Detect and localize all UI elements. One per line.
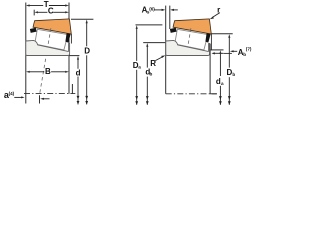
extension line stub: cup back face: [71, 84, 73, 94]
dimension T left arrow: [26, 4, 30, 6]
dimension C line: [37, 11, 47, 13]
svg-text:D: D: [84, 47, 90, 56]
d line stacked arrows: [77, 96, 80, 100]
cup back face OD extension line (Db): [212, 33, 233, 35]
dimension a right arrow (to load center): [40, 98, 44, 100]
svg-text:b: b: [150, 71, 153, 76]
svg-text:b: b: [243, 52, 246, 57]
dimension T line: [29, 5, 43, 7]
roller axis dashed line: [40, 28, 51, 93]
svg-text:(4): (4): [9, 91, 15, 96]
housing shoulder extension line (Da): [136, 24, 163, 26]
cage wedge (roller small end, right figure): [205, 33, 210, 43]
svg-text:d: d: [76, 68, 81, 77]
extension line: cone front face (left): [25, 3, 27, 104]
dimension B line: [29, 71, 44, 73]
svg-text:C: C: [48, 6, 54, 15]
cone backing shoulder extension line (db): [143, 42, 165, 44]
db line stacked arrows: [146, 96, 149, 100]
cup OD extension line: [71, 18, 93, 20]
dimension db line: [146, 43, 148, 47]
Ab back-standout arrow (points at cage back): [212, 52, 215, 54]
cage wedge (roller small end, right): [65, 33, 70, 43]
dimension C extension bar: [33, 10, 35, 16]
dimension As right arrow: [170, 9, 174, 11]
svg-text:a: a: [221, 81, 224, 86]
centerline (left figure): [24, 93, 75, 95]
roller (left figure): [35, 29, 68, 50]
extension line: bearing back face (right): [68, 3, 70, 94]
dimension T right arrow: [65, 4, 69, 6]
dimension D line (cup OD): [86, 20, 88, 24]
cup (outer ring, left figure): [33, 19, 71, 34]
cup (outer ring, right figure): [173, 19, 211, 34]
D line stacked arrows: [85, 96, 88, 100]
roller (right figure): [175, 29, 208, 50]
svg-text:b: b: [232, 72, 235, 77]
dimension B left arrow: [26, 71, 30, 73]
roller axis dashed line (right figure): [186, 28, 191, 56]
dimension da line: [219, 50, 221, 54]
cone bore extension line: [69, 55, 79, 57]
As line 2: cage front standout extension: [169, 6, 171, 29]
svg-text:B: B: [45, 67, 51, 76]
da line stacked arrows: [219, 96, 222, 100]
cone back rib extension line (da): [211, 49, 224, 51]
cone back face extension line with centerline stub: [209, 44, 211, 94]
dimension As left arrow: [154, 9, 162, 11]
centerline (right figure): [166, 93, 217, 95]
effective load center line: [39, 95, 41, 103]
cup back face extension down to housing shoulder: [210, 34, 212, 50]
shoulder line segment: [224, 52, 232, 54]
svg-text:(6): (6): [149, 7, 155, 12]
dimension C left arrow: [34, 11, 38, 13]
dimension C right arrow: [65, 11, 69, 13]
Da line stacked arrows: [135, 96, 138, 100]
cage wedge (roller large end, left): [30, 28, 37, 33]
cup back face extension stub: [70, 34, 72, 44]
dimension d line (bore diameter): [77, 56, 79, 60]
dimension Da line: [136, 25, 138, 29]
svg-text:a: a: [138, 65, 141, 70]
dimension Db line: [228, 34, 230, 38]
As line 1: cone front face extension: [165, 6, 167, 94]
Db line stacked arrows: [228, 96, 231, 100]
cone (inner ring, left figure): [26, 40, 70, 55]
cone (inner ring, right figure): [166, 40, 210, 55]
dimension B right arrow: [65, 71, 69, 73]
dimension a left arrow: [14, 96, 21, 98]
svg-text:(7): (7): [246, 47, 252, 52]
cage wedge (roller large end, right figure): [170, 28, 177, 33]
